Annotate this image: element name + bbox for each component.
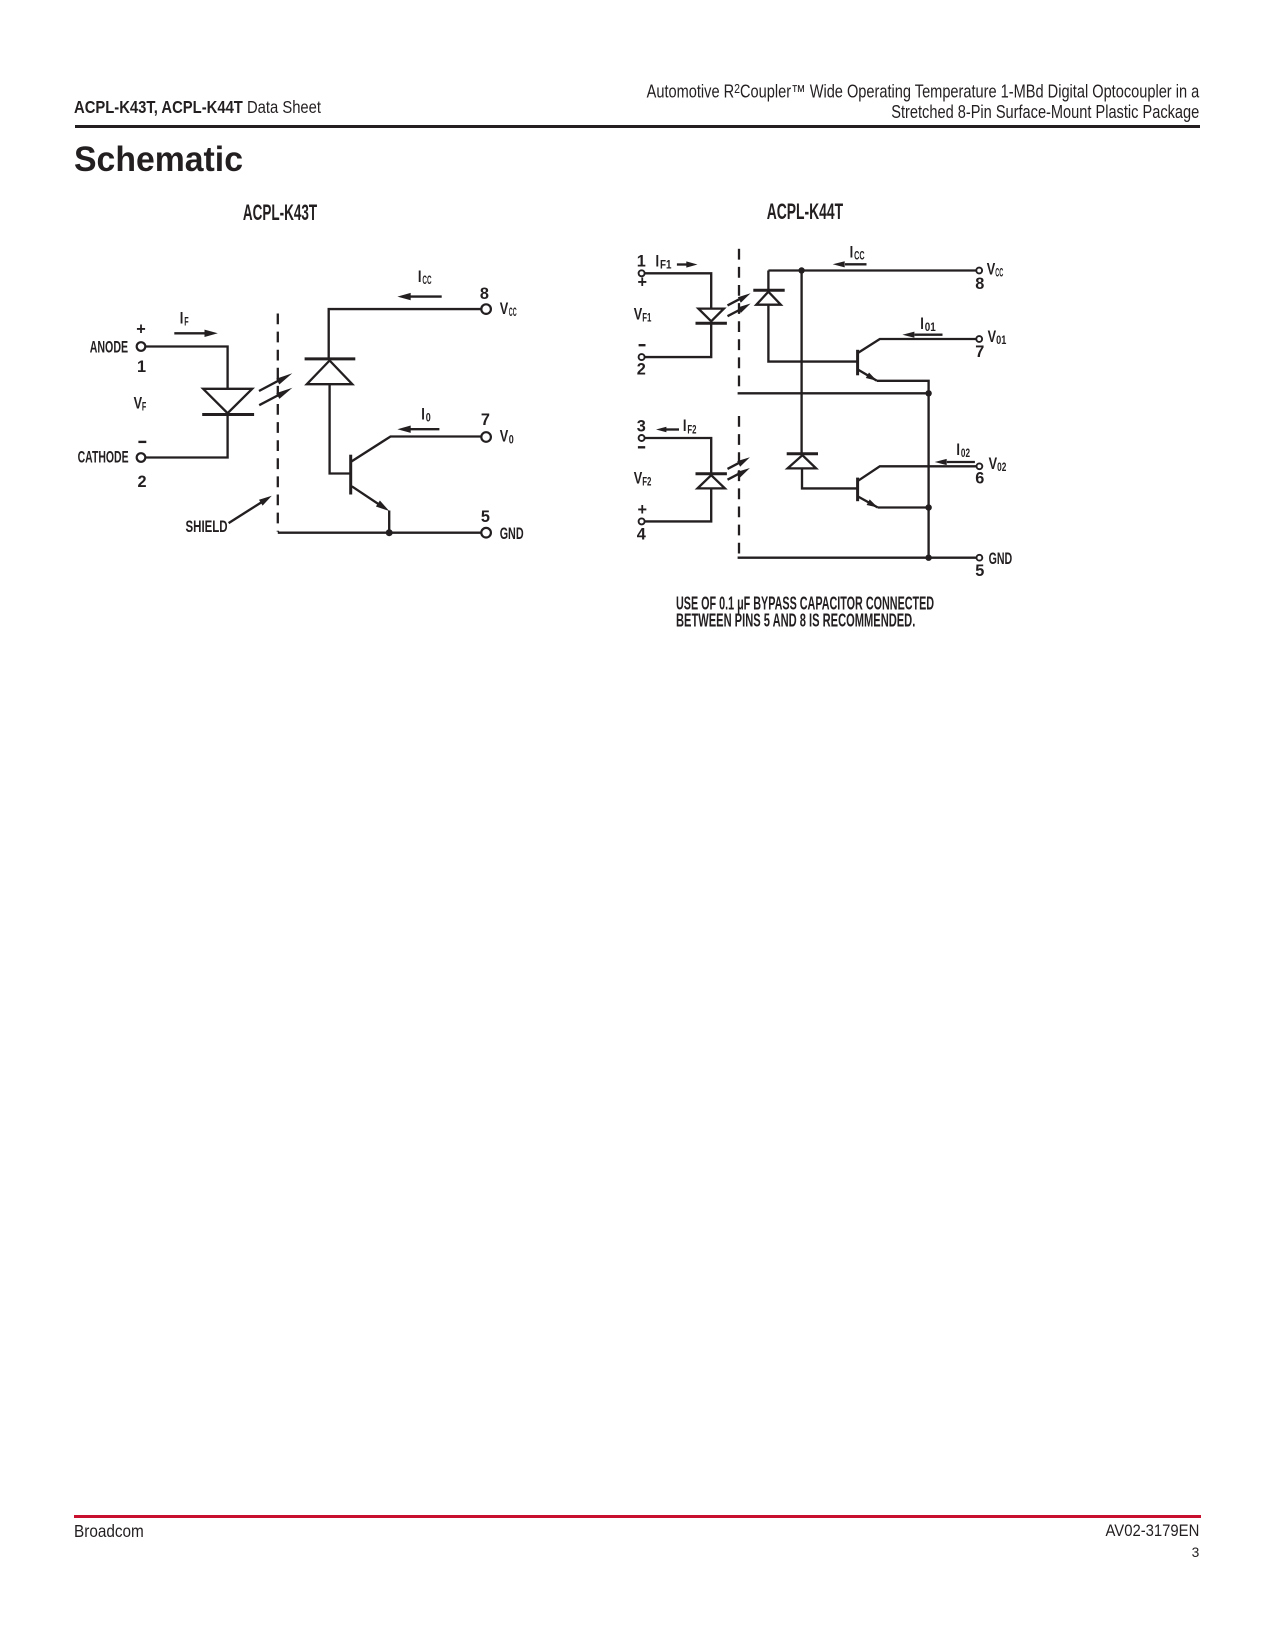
label - polarity pin 3 — [638, 446, 645, 448]
svg-text:8: 8 — [480, 285, 489, 303]
current arrow ICC (pointing left) — [833, 261, 867, 267]
pin 8 terminal VCC — [481, 304, 491, 314]
wire photodiode D3 to Q1 base — [768, 305, 856, 362]
pin 2 terminal — [639, 354, 645, 360]
label pin number 7 — [481, 411, 490, 429]
LED D1 triangle — [203, 389, 252, 413]
pin 6 terminal V02 — [977, 463, 983, 469]
svg-text:CATHODE: CATHODE — [78, 448, 129, 466]
label pin number 6 — [975, 470, 984, 488]
transistor Q1 base bar — [856, 350, 859, 376]
GND wire — [278, 532, 481, 534]
current arrow IF2 (pointing left) — [656, 427, 679, 433]
photodiode D3 cathode bar — [753, 289, 784, 292]
svg-text:CC: CC — [995, 265, 1003, 279]
wire pin3 to LED2 — [645, 438, 712, 473]
label + polarity pin 1 — [638, 274, 648, 292]
photodiode D4 triangle — [788, 455, 817, 468]
svg-text:I: I — [656, 252, 660, 270]
label V01 — [988, 328, 1007, 347]
shield dashed line — [277, 314, 279, 532]
wire pin1 to LED1 — [645, 273, 712, 308]
footer page number 3 — [1192, 1546, 1200, 1560]
label I01 — [920, 315, 936, 334]
label pin number 2 — [637, 360, 646, 378]
label + polarity pin 4 — [638, 501, 648, 519]
label pin number 5 — [481, 508, 490, 526]
note line 1 — [676, 593, 934, 614]
label pin number 1 — [637, 253, 646, 271]
transistor Q2 collector wire to pin 6 — [858, 466, 976, 481]
label GND — [500, 525, 524, 543]
junction dot VCC rail — [798, 267, 804, 273]
pin 1 terminal (anode) — [137, 342, 146, 351]
svg-text:CC: CC — [509, 305, 517, 319]
optical coupling arrows channel 1 — [728, 293, 751, 316]
svg-text:02: 02 — [961, 446, 970, 460]
label + (anode polarity) — [136, 320, 146, 338]
svg-text:2: 2 — [637, 360, 646, 378]
label pin number 7 — [975, 343, 984, 361]
note line 2 — [676, 610, 915, 631]
transistor Q1 collector wire to pin 7 — [351, 437, 481, 462]
label V02 — [989, 455, 1007, 474]
label pin number 4 — [637, 525, 646, 543]
svg-text:8: 8 — [975, 275, 984, 293]
svg-text:F: F — [142, 400, 146, 414]
label V0 — [500, 427, 514, 446]
header left: ACPL-K43T, ACPL-K44T Data Sheet — [74, 99, 321, 116]
optical coupling arrows — [259, 373, 292, 405]
header right: product description two lines — [647, 79, 1200, 122]
wire photodiode D4 to Q2 base — [802, 468, 857, 488]
transistor Q1 emitter wire with arrow — [352, 486, 389, 532]
label pin number 8 — [480, 285, 489, 303]
label ICC — [850, 244, 865, 263]
svg-text:I: I — [683, 417, 687, 435]
svg-text:7: 7 — [975, 343, 984, 361]
svg-text:BETWEEN PINS 5 AND 8 IS RECOMM: BETWEEN PINS 5 AND 8 IS RECOMMENDED. — [676, 610, 915, 631]
footer right: document number — [1105, 1523, 1199, 1539]
label VF — [134, 395, 147, 414]
svg-text:0: 0 — [509, 432, 514, 446]
svg-text:5: 5 — [975, 562, 984, 580]
svg-text:V: V — [988, 328, 997, 346]
transistor Q2 base bar — [856, 478, 859, 502]
photodiode cathode bar — [305, 357, 356, 360]
svg-text:V: V — [500, 300, 509, 318]
svg-text:ACPL-K43T: ACPL-K43T — [243, 200, 317, 225]
label - (cathode polarity) — [138, 441, 146, 443]
transistor Q1 collector wire to pin 7 — [858, 339, 976, 353]
label ANODE — [90, 339, 128, 357]
current arrow ICC (pointing left) — [397, 293, 441, 300]
label GND — [989, 550, 1013, 568]
svg-text:ANODE: ANODE — [90, 339, 128, 357]
svg-text:F1: F1 — [660, 258, 672, 272]
GND rail — [738, 557, 977, 559]
wire VCC to photodiode — [329, 309, 481, 358]
svg-text:V: V — [989, 455, 998, 473]
footer left: Broadcom — [74, 1523, 144, 1541]
VCC rail — [768, 269, 976, 271]
svg-text:2: 2 — [137, 473, 146, 491]
label IF1 — [656, 252, 672, 271]
transistor Q2 emitter wire — [858, 497, 929, 508]
label pin number 8 — [975, 275, 984, 293]
svg-text:+: + — [638, 501, 648, 519]
current arrow I0 (pointing left) — [397, 426, 439, 433]
label pin number 5 — [975, 562, 984, 580]
svg-text:01: 01 — [996, 333, 1007, 347]
svg-text:GND: GND — [989, 550, 1013, 568]
shield pointer arrow — [229, 496, 272, 523]
label - polarity pin 2 — [639, 344, 646, 346]
junction dot emitter1/shield — [925, 390, 931, 396]
junction dot emitter2 — [925, 504, 931, 510]
photodiode triangle — [307, 361, 353, 385]
transistor Q1 emitter wire — [858, 370, 929, 394]
pin 1 terminal — [639, 270, 645, 276]
svg-text:I: I — [418, 268, 422, 286]
current arrow I02 (pointing left) — [935, 459, 975, 465]
schematic title ACPL-K44T — [767, 199, 844, 224]
svg-text:1: 1 — [637, 253, 646, 271]
pin 4 terminal — [639, 518, 645, 524]
pin 3 terminal — [639, 435, 645, 441]
footer rule (red) — [74, 1515, 1201, 1518]
pin 8 terminal VCC — [976, 268, 982, 274]
label SHIELD — [186, 518, 228, 536]
svg-text:V: V — [987, 260, 996, 278]
svg-text:GND: GND — [500, 525, 524, 543]
pin 5 terminal GND — [481, 528, 491, 538]
svg-text:I: I — [180, 310, 184, 328]
optical coupling arrows channel 2 — [728, 457, 750, 480]
svg-text:SHIELD: SHIELD — [186, 518, 228, 536]
wire photodiode to transistor base — [330, 384, 350, 473]
svg-text:+: + — [136, 320, 146, 338]
svg-text:1: 1 — [137, 358, 146, 376]
current arrow IF (pointing right) — [174, 330, 218, 337]
svg-text:F2: F2 — [687, 422, 696, 436]
svg-text:I: I — [956, 441, 960, 459]
svg-text:7: 7 — [481, 411, 490, 429]
junction dot GND — [925, 555, 931, 561]
label VF1 — [634, 306, 652, 325]
pin 5 terminal GND — [977, 555, 983, 561]
shield dashed line channel 2 — [738, 416, 740, 557]
svg-text:CC: CC — [854, 249, 865, 263]
label VCC — [500, 300, 517, 319]
LED D2 cathode bar — [696, 472, 727, 475]
svg-text:3: 3 — [637, 418, 646, 436]
svg-text:02: 02 — [997, 460, 1007, 474]
svg-text:F1: F1 — [642, 311, 651, 325]
wire pin4 to LED2 — [645, 488, 712, 521]
svg-text:5: 5 — [481, 508, 490, 526]
label pin number 2 — [137, 473, 146, 491]
transistor Q1 base bar — [349, 455, 352, 495]
svg-text:ACPL-K44T: ACPL-K44T — [767, 199, 844, 224]
svg-text:CC: CC — [422, 273, 431, 287]
label pin number 1 — [137, 358, 146, 376]
photodiode D3 triangle — [756, 292, 781, 305]
svg-text:V: V — [634, 469, 643, 487]
svg-text:F2: F2 — [642, 475, 651, 489]
shield/ground return line channel 1 — [738, 392, 929, 394]
svg-text:6: 6 — [975, 470, 984, 488]
wire LED to cathode — [145, 415, 227, 458]
label CATHODE — [78, 448, 129, 466]
current arrow IF1 (pointing right) — [677, 261, 698, 267]
wire anode to LED — [145, 347, 227, 389]
wire emitter chain down — [927, 393, 929, 557]
header rule — [75, 125, 1201, 128]
LED D2 triangle — [698, 475, 725, 488]
svg-text:I: I — [421, 406, 425, 424]
label VCC — [987, 260, 1004, 279]
svg-text:F: F — [184, 315, 188, 329]
wire VCC junction down to photodiode D4 — [800, 271, 802, 454]
LED D1 cathode bar — [696, 322, 727, 325]
label I0 — [421, 406, 431, 425]
pin 2 terminal (cathode) — [137, 453, 146, 462]
label ICC — [418, 268, 432, 287]
label pin number 3 — [637, 418, 646, 436]
svg-text:I: I — [850, 244, 854, 262]
schematic title ACPL-K43T — [243, 200, 317, 225]
section title Schematic — [74, 142, 243, 177]
LED D1 cathode bar — [202, 413, 254, 416]
LED D1 triangle — [698, 309, 724, 322]
svg-text:4: 4 — [637, 525, 646, 543]
pin 7 terminal V01 — [976, 336, 982, 342]
wire photodiode D3 to VCC rail — [767, 271, 769, 291]
svg-text:I: I — [920, 315, 924, 333]
wire pin2 to LED1 — [645, 324, 712, 357]
svg-text:V: V — [500, 427, 509, 445]
label I02 — [956, 441, 970, 460]
label VF2 — [634, 469, 652, 488]
svg-text:+: + — [638, 274, 648, 292]
photodiode D4 cathode bar — [787, 452, 818, 455]
junction dot emitter-GND — [386, 529, 393, 536]
svg-text:0: 0 — [426, 411, 431, 425]
pin 7 terminal V0 — [481, 432, 491, 442]
svg-text:V: V — [634, 306, 643, 324]
shield dashed line channel 1 — [738, 249, 740, 392]
label IF2 — [683, 417, 697, 436]
current arrow I01 (pointing left) — [902, 332, 942, 338]
svg-text:01: 01 — [925, 320, 936, 334]
label IF — [180, 310, 189, 329]
